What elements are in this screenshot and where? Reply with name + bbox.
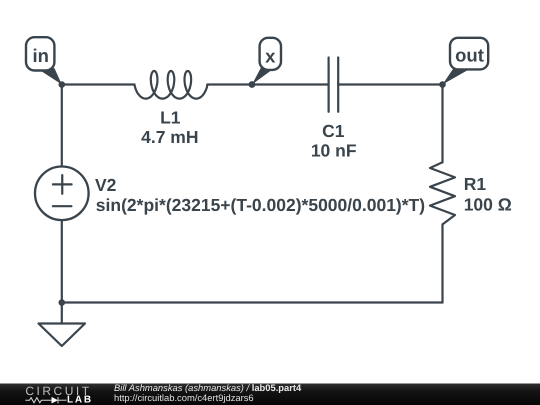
svg-text:x: x [265,45,276,66]
svg-text:10 nF: 10 nF [311,141,357,161]
wedge for out label [443,67,472,85]
node dot out [439,81,446,88]
svg-text:V2: V2 [95,175,117,195]
CircuitLab logo diode triangle [52,397,59,404]
V2 plus sign [53,175,72,194]
node dot x [249,81,256,88]
out label box [450,38,488,70]
ground triangle [39,324,86,347]
wedge for in label [35,67,62,85]
node dot ground junction [59,299,66,306]
CircuitLab logo resistor squiggle lead [25,397,66,403]
wire: out node down to R1 top [441,85,443,163]
wedge for x label [252,67,275,85]
svg-text:L1: L1 [160,108,181,128]
wire: in node down to V2 top [61,85,63,167]
capacitor C1 left plate [328,58,330,112]
ground stub [61,303,63,324]
svg-text:out: out [455,45,484,66]
voltage source V2 circle [35,167,89,221]
in label box [26,37,54,70]
svg-text:LAB: LAB [67,395,93,405]
resistor R1 zigzag [430,162,455,224]
wire: in node to inductor [62,83,135,85]
svg-text:4.7 mH: 4.7 mH [141,127,198,147]
node dot in [59,81,66,88]
wire: capacitor to out node [338,83,442,85]
wire: V2 bottom to bottom rail [61,220,63,302]
wire: bottom rail [62,301,443,303]
svg-text:100 Ω: 100 Ω [464,195,512,215]
x label box [260,38,281,70]
inductor L1 coil [135,71,208,99]
svg-text:in: in [32,45,48,66]
svg-text:sin(2*pi*(23215+(T-0.002)*5000: sin(2*pi*(23215+(T-0.002)*5000/0.001)*T) [96,195,425,215]
svg-text:C1: C1 [322,121,345,141]
svg-text:http://circuitlab.com/c4ert9jd: http://circuitlab.com/c4ert9jdzars6 [114,392,254,403]
svg-text:R1: R1 [464,174,487,194]
V2 minus sign [53,205,72,207]
capacitor C1 right plate [337,58,339,112]
wire: R1 bottom to bottom rail [441,224,443,302]
wire: inductor to x node to capacitor [207,83,328,85]
